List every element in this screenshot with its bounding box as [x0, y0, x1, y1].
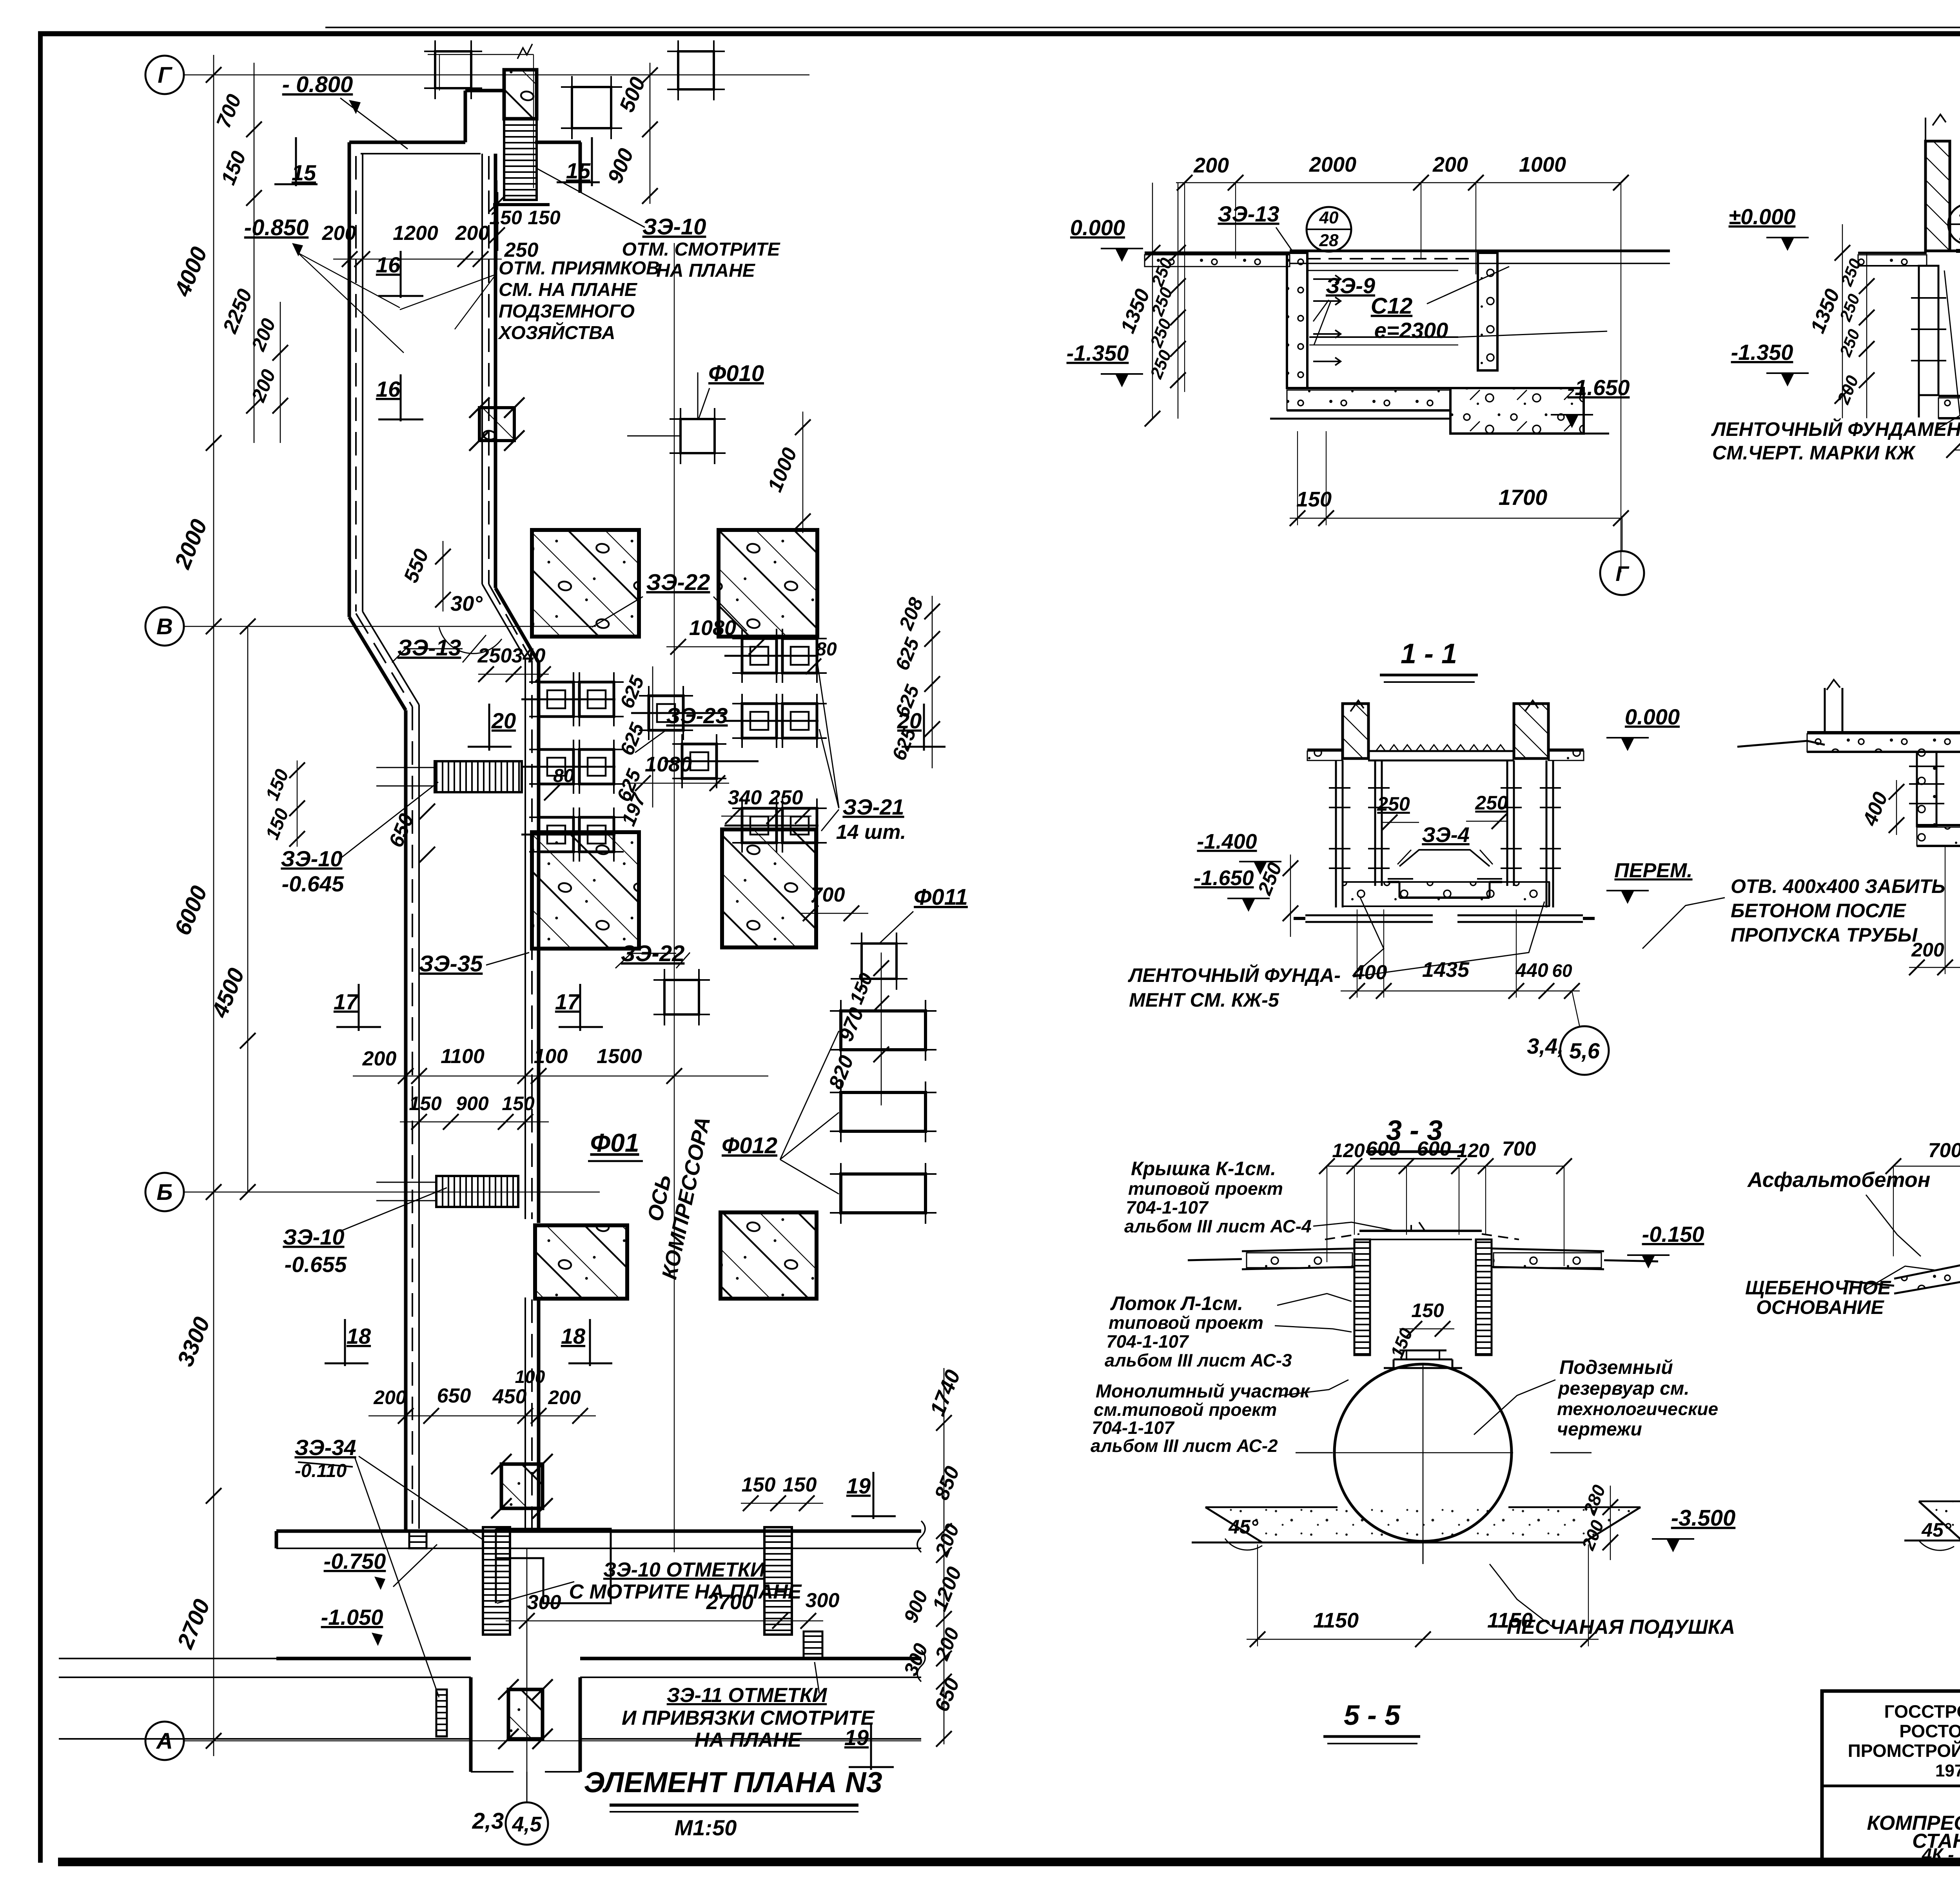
sec3 wall left hatched	[1343, 704, 1368, 758]
anchor bolt middle 2	[682, 744, 717, 778]
ЗЭ-22 block A-right	[719, 530, 817, 637]
svg-text:Лоток Л-1см.: Лоток Л-1см.	[1110, 1292, 1243, 1314]
sec3 footing slab	[1343, 882, 1549, 906]
svg-text:250: 250	[1836, 327, 1863, 359]
svg-text:ГОССТРОЙ СССР: ГОССТРОЙ СССР	[1884, 1701, 1960, 1722]
sec1 left dims	[1152, 183, 1153, 419]
svg-text:250: 250	[769, 786, 803, 809]
walkway tiny at band1	[409, 1531, 426, 1548]
plan bottom tongue	[469, 1677, 473, 1772]
plan bottom band 1	[276, 1530, 921, 1533]
svg-text:-1.050: -1.050	[321, 1605, 383, 1629]
svg-text:чертежи: чертежи	[1557, 1419, 1642, 1440]
sec3 base	[1305, 915, 1433, 916]
svg-text:1200: 1200	[393, 222, 438, 245]
svg-text:19: 19	[846, 1473, 871, 1498]
svg-text:200: 200	[1834, 373, 1863, 407]
ЗЭ-22 block A-left	[532, 530, 639, 637]
svg-text:1150: 1150	[1487, 1609, 1533, 1632]
svg-text:В: В	[156, 614, 173, 639]
svg-text:0.000: 0.000	[1070, 215, 1125, 240]
svg-text:- 0.800: - 0.800	[282, 72, 353, 97]
svg-text:2000: 2000	[169, 516, 212, 573]
svg-text:150: 150	[846, 970, 877, 1007]
svg-text:704-1-107: 704-1-107	[1106, 1331, 1189, 1352]
sec3 inner tray	[1399, 850, 1490, 866]
walkway bottom-left	[483, 1527, 510, 1635]
ЗЭ-22 block B-right	[722, 829, 816, 947]
svg-text:ЛЕНТОЧНЫЙ ФУНДАМЕНТ: ЛЕНТОЧНЫЙ ФУНДАМЕНТ	[1711, 418, 1960, 440]
sec1 axis circle Г	[1600, 551, 1644, 595]
svg-text:16: 16	[376, 377, 401, 401]
svg-text:Г: Г	[158, 62, 172, 88]
sec2 left found column	[1919, 266, 1938, 395]
svg-text:БЕТОНОМ ПОСЛЕ: БЕТОНОМ ПОСЛЕ	[1731, 900, 1906, 922]
svg-text:1150: 1150	[1313, 1609, 1359, 1632]
svg-text:300: 300	[806, 1589, 840, 1612]
svg-text:технологические: технологические	[1557, 1399, 1718, 1419]
svg-text:600: 600	[1366, 1138, 1400, 1160]
sec1 tank top dashed	[1307, 258, 1478, 259]
svg-text:28: 28	[1319, 231, 1339, 250]
svg-text:250: 250	[1148, 285, 1177, 319]
sec6 sand bed	[1919, 1501, 1960, 1541]
sec1 rebar arrows	[1313, 275, 1341, 283]
svg-text:18: 18	[561, 1324, 586, 1348]
svg-text:ЭЛЕМЕНТ ПЛАНА N3: ЭЛЕМЕНТ ПЛАНА N3	[584, 1766, 882, 1798]
equip square top-left	[435, 51, 471, 88]
svg-text:200: 200	[322, 222, 356, 245]
svg-text:-1.350: -1.350	[1731, 340, 1793, 365]
svg-text:-1.650: -1.650	[1194, 866, 1254, 890]
svg-text:-0.850: -0.850	[244, 215, 309, 240]
svg-text:704-1-107: 704-1-107	[1126, 1197, 1209, 1218]
svg-text:2700: 2700	[706, 1590, 753, 1614]
svg-text:4000: 4000	[169, 243, 212, 300]
svg-text:Монолитный участок: Монолитный участок	[1096, 1381, 1311, 1402]
axis circle Г	[145, 56, 184, 94]
svg-text:1500: 1500	[597, 1045, 642, 1068]
svg-text:400: 400	[1353, 961, 1387, 984]
top column hatched	[504, 70, 537, 119]
svg-text:700: 700	[212, 91, 246, 131]
sec2 tank top	[1950, 250, 1960, 252]
svg-text:17: 17	[334, 989, 359, 1014]
svg-text:450: 450	[492, 1385, 527, 1408]
plan bottom band 2	[276, 1657, 471, 1660]
plan left wall lower	[404, 710, 408, 1531]
svg-text:А: А	[156, 1728, 173, 1754]
svg-text:5,6: 5,6	[1569, 1038, 1600, 1063]
svg-text:ХОЗЯЙСТВА: ХОЗЯЙСТВА	[497, 322, 615, 343]
svg-text:4500: 4500	[207, 965, 249, 1022]
sec5 top dims	[1327, 1166, 1564, 1167]
plan bottom centerline	[526, 1548, 528, 1803]
top small dims	[254, 63, 255, 443]
right dim col bottom	[944, 1368, 945, 1744]
compressor axis line	[674, 243, 675, 1552]
sec5 neck left wall	[1354, 1239, 1370, 1355]
svg-text:е=2300: е=2300	[1374, 318, 1448, 343]
svg-text:1 - 1: 1 - 1	[1401, 638, 1457, 670]
svg-text:200: 200	[931, 1521, 964, 1559]
svg-text:-1.650: -1.650	[1568, 375, 1630, 400]
svg-text:ОТВ. 400х400 ЗАБИТЬ: ОТВ. 400х400 ЗАБИТЬ	[1731, 875, 1945, 897]
plan right wall jog	[495, 588, 539, 662]
svg-text:НА ПЛАНЕ: НА ПЛАНЕ	[656, 260, 755, 281]
sec2 floor left	[1858, 252, 1927, 254]
svg-text:200: 200	[455, 222, 490, 245]
sec4 ground left	[1737, 741, 1825, 747]
svg-text:3300: 3300	[172, 1314, 215, 1370]
title block frame	[1822, 1691, 1960, 1863]
svg-text:100: 100	[534, 1045, 568, 1068]
sec1 floor slab	[1287, 387, 1450, 389]
Ф013 outline	[496, 1529, 611, 1603]
equip square mid17	[664, 980, 699, 1014]
svg-text:-1.350: -1.350	[1067, 341, 1129, 365]
axis circle В	[145, 607, 184, 646]
svg-text:НА ПЛАНЕ: НА ПЛАНЕ	[695, 1729, 802, 1751]
svg-text:900: 900	[603, 145, 638, 187]
sec3 floor lines	[1307, 749, 1343, 751]
svg-text:80: 80	[553, 766, 574, 786]
walkway ЗЭ-10 -0.655	[436, 1176, 518, 1207]
sec2 left dims	[1842, 224, 1843, 418]
svg-text:200: 200	[931, 1624, 964, 1663]
svg-text:250: 250	[1147, 347, 1176, 382]
ЗЭ-22 block B-left	[532, 832, 639, 949]
svg-text:150: 150	[262, 806, 293, 842]
sec5 collar right	[1492, 1248, 1604, 1251]
svg-text:ЗЭ-10: ЗЭ-10	[642, 214, 706, 240]
sec5 cover	[1359, 1230, 1482, 1232]
equip rect Ф012-1	[841, 1011, 926, 1050]
svg-text:1435: 1435	[1422, 958, 1470, 982]
bottom column 18 hatched	[501, 1464, 543, 1508]
plan bottom band 3	[59, 1738, 471, 1740]
svg-text:ЗЭ-11 ОТМЕТКИ: ЗЭ-11 ОТМЕТКИ	[667, 1684, 828, 1707]
walkway bottom-right	[764, 1527, 792, 1635]
svg-text:150: 150	[528, 207, 561, 229]
svg-text:1700: 1700	[1499, 485, 1548, 510]
svg-text:1976 г.: 1976 г.	[1935, 1761, 1960, 1780]
sec3 right form wall	[1506, 760, 1508, 886]
svg-text:625: 625	[891, 634, 924, 673]
svg-text:1200: 1200	[928, 1564, 966, 1614]
svg-text:4К - 250А: 4К - 250А	[1922, 1844, 1960, 1865]
svg-text:5 - 5: 5 - 5	[1344, 1700, 1401, 1731]
svg-text:ЗЭ-10: ЗЭ-10	[281, 846, 342, 871]
svg-text:15: 15	[566, 158, 591, 183]
svg-text:625: 625	[616, 672, 649, 711]
walkway ЗЭ-10 -0.645	[435, 761, 522, 792]
svg-text:±0.000: ±0.000	[1729, 204, 1796, 229]
svg-text:250: 250	[1377, 793, 1410, 815]
anchor bolt cluster left	[539, 682, 573, 717]
svg-text:850: 850	[930, 1463, 964, 1503]
sheet border frame	[38, 34, 43, 1863]
anchor bolt cluster right	[742, 639, 777, 673]
svg-text:ПРОПУСКА ТРУБЫ: ПРОПУСКА ТРУБЫ	[1731, 924, 1918, 946]
sec5 tank circle	[1334, 1364, 1512, 1541]
sec1 floor line	[1145, 252, 1290, 254]
svg-text:150: 150	[742, 1473, 776, 1496]
svg-text:200: 200	[247, 315, 280, 354]
svg-text:40: 40	[1319, 208, 1339, 227]
sec4 floor slab	[1917, 824, 1960, 826]
svg-text:резервуар см.: резервуар см.	[1557, 1378, 1690, 1399]
axis circle Б	[145, 1173, 184, 1211]
svg-text:ЛЕНТОЧНЫЙ ФУНДА-: ЛЕНТОЧНЫЙ ФУНДА-	[1128, 964, 1341, 986]
svg-text:625: 625	[616, 719, 649, 758]
bottom column A hatched	[508, 1689, 543, 1739]
svg-text:200: 200	[247, 366, 280, 405]
sec4 top slab	[1807, 731, 1960, 733]
svg-text:2000: 2000	[1309, 153, 1356, 176]
sec2 circle 40/28	[1948, 204, 1960, 245]
svg-text:Ф010: Ф010	[708, 361, 764, 386]
svg-text:Крышка К-1см.: Крышка К-1см.	[1131, 1158, 1276, 1179]
svg-text:СМ.ЧЕРТ. МАРКИ КЖ: СМ.ЧЕРТ. МАРКИ КЖ	[1712, 442, 1916, 464]
svg-text:600: 600	[1417, 1138, 1451, 1160]
svg-text:150: 150	[1411, 1299, 1444, 1321]
equip square top-right	[678, 51, 714, 89]
svg-text:700: 700	[1502, 1138, 1536, 1160]
svg-text:альбом III лист АС-2: альбом III лист АС-2	[1091, 1435, 1278, 1456]
label Ф01	[588, 1128, 643, 1161]
svg-text:60: 60	[1552, 960, 1572, 981]
svg-text:ЗЭ-10 ОТМЕТКИ: ЗЭ-10 ОТМЕТКИ	[603, 1559, 766, 1581]
svg-text:120: 120	[1457, 1140, 1490, 1161]
plan left wall upper	[348, 142, 351, 617]
svg-text:650: 650	[437, 1384, 471, 1407]
sec5 collar left	[1242, 1248, 1354, 1251]
walkway small bottom	[804, 1631, 822, 1658]
svg-text:РОСТОВСКИЙ: РОСТОВСКИЙ	[1899, 1721, 1960, 1741]
svg-text:типовой проект: типовой проект	[1128, 1178, 1283, 1199]
svg-text:17: 17	[555, 989, 581, 1014]
svg-text:1080: 1080	[645, 753, 692, 776]
sec1 right wall	[1478, 253, 1497, 370]
svg-text:4,5: 4,5	[512, 1813, 542, 1836]
svg-text:250: 250	[477, 644, 512, 667]
svg-text:200: 200	[362, 1047, 397, 1070]
svg-text:16: 16	[376, 252, 401, 277]
svg-text:ЗЭ-22: ЗЭ-22	[646, 570, 710, 595]
svg-text:альбом III лист АС-3: альбом III лист АС-3	[1105, 1350, 1292, 1370]
block C-right	[720, 1212, 817, 1299]
svg-text:Б: Б	[156, 1179, 172, 1205]
svg-text:900: 900	[456, 1092, 489, 1114]
svg-text:700: 700	[811, 884, 845, 906]
svg-text:-0.655: -0.655	[285, 1252, 347, 1277]
sec5 tank fitting	[1384, 1367, 1462, 1369]
svg-text:45°: 45°	[1921, 1519, 1952, 1541]
svg-text:Ф011: Ф011	[914, 884, 968, 910]
svg-text:И ПРИВЯЗКИ СМОТРИТЕ: И ПРИВЯЗКИ СМОТРИТЕ	[622, 1707, 875, 1729]
axis bottom circle 4,5	[506, 1802, 548, 1845]
sec1 mid shelf	[1309, 336, 1458, 338]
svg-text:150: 150	[217, 148, 250, 188]
svg-text:ПЕСЧАНАЯ ПОДУШКА: ПЕСЧАНАЯ ПОДУШКА	[1507, 1616, 1735, 1639]
sec1 footing	[1450, 388, 1584, 434]
svg-text:-0.645: -0.645	[282, 871, 345, 896]
svg-text:120: 120	[1332, 1140, 1365, 1161]
plan right wall lower	[537, 662, 541, 1223]
svg-text:208: 208	[895, 594, 927, 633]
svg-text:200: 200	[1193, 154, 1229, 177]
svg-text:150: 150	[489, 207, 522, 229]
plan right wall upper	[494, 154, 497, 588]
walkway strip top	[504, 119, 537, 200]
equip rect Ф012-2	[841, 1092, 926, 1131]
equip square Ф010	[681, 419, 715, 453]
svg-text:340: 340	[728, 786, 762, 809]
sec5 dims 280 200	[1610, 1486, 1611, 1560]
dim 150150 250 ticks	[497, 192, 499, 251]
plan left wall jog	[349, 617, 406, 710]
svg-text:200: 200	[1432, 153, 1468, 176]
svg-text:ОСНОВАНИЕ: ОСНОВАНИЕ	[1756, 1296, 1884, 1318]
svg-text:ЗЭ-23: ЗЭ-23	[666, 703, 728, 728]
equip square top-middle	[572, 87, 611, 128]
sec3 left form wall	[1335, 760, 1337, 907]
svg-text:340: 340	[512, 644, 546, 667]
svg-text:ЗЭ-13: ЗЭ-13	[397, 635, 461, 660]
svg-text:1000: 1000	[1519, 153, 1566, 176]
svg-text:300: 300	[900, 1640, 932, 1679]
svg-text:650: 650	[385, 810, 418, 850]
svg-text:820: 820	[824, 1052, 858, 1092]
svg-text:ПРОМСТРОЙНИИПРОЕКТ: ПРОМСТРОЙНИИПРОЕКТ	[1848, 1740, 1960, 1761]
svg-text:Г: Г	[1615, 562, 1630, 586]
svg-text:14 шт.: 14 шт.	[836, 821, 906, 844]
svg-text:Асфальтобетон: Асфальтобетон	[1747, 1168, 1930, 1192]
svg-text:250: 250	[504, 239, 539, 261]
svg-text:3,4,: 3,4,	[1527, 1034, 1563, 1058]
svg-text:МЕНТ СМ. КЖ-5: МЕНТ СМ. КЖ-5	[1129, 989, 1279, 1011]
svg-text:250: 250	[1147, 316, 1176, 350]
svg-text:Подземный: Подземный	[1559, 1356, 1673, 1378]
svg-text:300: 300	[527, 1591, 561, 1614]
svg-text:704-1-107: 704-1-107	[1092, 1417, 1175, 1438]
sec1 circle 40/28	[1307, 207, 1351, 252]
svg-text:20: 20	[491, 708, 516, 733]
svg-text:типовой проект: типовой проект	[1109, 1312, 1263, 1333]
sec5 sand bed	[1205, 1507, 1641, 1542]
svg-text:см.типовой проект: см.типовой проект	[1094, 1399, 1277, 1420]
sec5 neck right wall	[1476, 1239, 1492, 1355]
svg-text:30°: 30°	[450, 592, 483, 615]
svg-text:200: 200	[1911, 939, 1944, 961]
svg-text:-0.110: -0.110	[295, 1461, 347, 1481]
svg-text:6000: 6000	[170, 882, 212, 939]
svg-text:80: 80	[816, 639, 837, 660]
sec1 left wall	[1287, 253, 1307, 388]
plan right wall lower2	[537, 1297, 541, 1531]
svg-text:1000: 1000	[764, 445, 802, 495]
svg-text:440: 440	[1515, 959, 1548, 981]
svg-text:400: 400	[1858, 789, 1893, 829]
svg-text:С МОТРИТЕ НА ПЛАНЕ: С МОТРИТЕ НА ПЛАНЕ	[569, 1580, 802, 1603]
svg-text:2250: 2250	[218, 286, 257, 337]
axis B column hatched	[479, 408, 514, 441]
walkway tiny ЗЭ-34	[436, 1689, 447, 1737]
svg-text:-0.750: -0.750	[324, 1549, 386, 1573]
equip rect Ф012-3	[841, 1174, 926, 1213]
svg-text:250: 250	[1475, 792, 1508, 814]
svg-text:ПОДЗЕМНОГО: ПОДЗЕМНОГО	[499, 301, 635, 322]
svg-text:СМ. НА ПЛАНЕ: СМ. НА ПЛАНЕ	[499, 279, 638, 300]
svg-text:150: 150	[502, 1092, 535, 1114]
svg-text:ЗЭ-21: ЗЭ-21	[842, 795, 904, 819]
plan top wall	[349, 141, 465, 144]
svg-text:100: 100	[515, 1366, 545, 1387]
svg-text:18: 18	[347, 1324, 371, 1348]
svg-text:ОТМ. СМОТРИТЕ: ОТМ. СМОТРИТЕ	[622, 239, 780, 260]
inner dim chain 4500	[247, 626, 249, 1192]
svg-text:900: 900	[900, 1587, 932, 1626]
svg-text:0.000: 0.000	[1625, 704, 1680, 729]
svg-text:ЗЭ-34: ЗЭ-34	[294, 1435, 356, 1460]
sec3 wall right hatched	[1514, 704, 1548, 758]
block C-left	[535, 1225, 627, 1299]
left dim chain line	[213, 55, 214, 1756]
sec1 extension lines	[1184, 183, 1185, 392]
svg-text:2,3: 2,3	[472, 1808, 504, 1834]
sec6 collar left	[1894, 1261, 1960, 1279]
sec2 wall left hatched	[1926, 141, 1950, 251]
svg-text:Ф01: Ф01	[590, 1128, 639, 1157]
sec1 top dim line	[1176, 182, 1621, 183]
svg-text:200: 200	[548, 1386, 581, 1408]
svg-text:45°: 45°	[1228, 1516, 1259, 1538]
svg-text:ЗЭ-10: ЗЭ-10	[283, 1225, 344, 1249]
svg-text:-3.500: -3.500	[1671, 1505, 1735, 1531]
svg-text:ЗЭ-13: ЗЭ-13	[1218, 201, 1279, 226]
svg-text:700: 700	[1928, 1139, 1960, 1162]
svg-text:150: 150	[783, 1473, 817, 1496]
svg-text:150: 150	[409, 1092, 442, 1114]
svg-text:550: 550	[399, 546, 433, 586]
svg-text:С12: С12	[1371, 293, 1412, 319]
svg-text:ЗЭ-35: ЗЭ-35	[419, 951, 483, 976]
sec4 left wall col	[1917, 752, 1936, 826]
axis circle А	[145, 1722, 184, 1760]
svg-text:2700: 2700	[172, 1596, 215, 1653]
sec6 top dims	[1893, 1166, 1960, 1167]
svg-text:Ф012: Ф012	[722, 1133, 777, 1158]
svg-text:альбом III лист АС-4: альбом III лист АС-4	[1124, 1216, 1312, 1236]
svg-text:ЗЭ-4: ЗЭ-4	[1422, 823, 1470, 847]
svg-text:-1.400: -1.400	[1197, 830, 1257, 853]
svg-text:1740: 1740	[926, 1366, 965, 1419]
svg-text:-0.150: -0.150	[1642, 1222, 1704, 1247]
anchor bolt middle 1	[649, 696, 683, 730]
equip square Ф011	[862, 944, 897, 979]
svg-text:1100: 1100	[441, 1045, 485, 1068]
svg-text:150: 150	[262, 766, 293, 803]
svg-text:200: 200	[373, 1386, 407, 1408]
break squiggle band1	[917, 1521, 925, 1552]
svg-text:650: 650	[930, 1675, 964, 1715]
svg-text:ПЕРЕМ.: ПЕРЕМ.	[1614, 859, 1692, 882]
sec2 floor slab	[1938, 395, 1960, 397]
svg-text:1080: 1080	[689, 616, 736, 640]
svg-text:М1:50: М1:50	[675, 1815, 737, 1840]
svg-text:ЗЭ-9: ЗЭ-9	[1326, 273, 1375, 298]
